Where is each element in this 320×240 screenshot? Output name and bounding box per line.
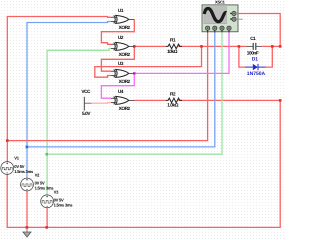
svg-text:U4: U4 [118,89,124,94]
capacitor C1 [247,36,262,55]
svg-text:100nF: 100nF [247,50,259,55]
scope bottom terminal 4 [227,26,231,30]
wire: V2 net blue vertical and U1 input B [27,22,111,179]
wire: V3 net green vertical and U2 input B [47,49,111,195]
XOR gate U1 [111,8,134,30]
junction C1 line / D1 left [238,45,241,48]
svg-text:R1: R1 [170,37,176,42]
svg-text:U1: U1 [118,8,124,13]
junction C1 line / U3B drop [200,45,203,48]
XOR gate U4 [111,89,134,111]
svg-text:D1: D1 [252,57,259,63]
svg-text:1N750A: 1N750A [247,71,266,77]
svg-text:XSC1: XSC1 [215,0,226,5]
wire: U3 output magenta to scope terminal 4 [134,32,229,74]
scope bottom terminal 3 [220,26,224,30]
wire: scope channel A from right terminal down to C1 line [236,14,280,47]
scope terminal A right [232,11,236,15]
svg-text:VCC: VCC [81,89,91,94]
scope bottom terminal 1 [206,26,210,30]
svg-text:U2: U2 [118,35,124,40]
wire: U1 output loop to U2 input A [101,19,134,44]
junction scope t3 / V3 vertical [45,153,48,156]
wire: drop from C1 line down to U3 input B [95,46,202,77]
wire: U3 output magenta loop to U4 input A [101,73,134,98]
source V3 [41,189,74,207]
source V2 [21,172,55,191]
svg-text:XOR2: XOR2 [119,79,131,84]
wire: VCC to U4 input B (light red) [91,102,111,105]
svg-text:1.5ms 3ms: 1.5ms 3ms [54,202,74,207]
svg-text:R2: R2 [170,92,176,97]
svg-text:XOR2: XOR2 [119,52,131,57]
junction scope t1 / V1 vertical [6,139,9,142]
svg-text:U3: U3 [118,61,124,66]
svg-text:1.0kΩ: 1.0kΩ [167,102,179,107]
resistor R1 [166,37,182,54]
source V1 [1,155,34,174]
wire: scope terminal 1 red down-left to V1 net [7,32,208,141]
wire: D1 loop right vertical [266,46,273,67]
diode D1 (zener 1N750A) [245,57,266,77]
svg-text:5.0V: 5.0V [82,111,91,116]
junction U2 output [133,45,136,48]
scope terminal B stub [236,18,243,20]
resistor R2 [166,92,182,108]
XOR gate U3 [111,61,134,84]
junction C1 line / right vertical [279,45,282,48]
junction U3 output magenta [133,72,136,75]
scope bottom terminal 2 [213,26,217,30]
wire: U2 output loop to U3 input A [101,46,134,71]
svg-text:1.5ms 3ms: 1.5ms 3ms [14,169,34,174]
svg-text:1.5ms 3ms: 1.5ms 3ms [35,186,55,191]
XOR gate U2 [111,35,134,57]
VCC power symbol [81,89,91,116]
wire: U2 output main horizontal to R1 and C1 [134,45,280,47]
scope bottom terminal pins [208,30,229,32]
wire: scope terminal 3 green down-left to V3 net [47,32,222,154]
svg-text:XOR2: XOR2 [119,25,131,30]
svg-text:10kΩ: 10kΩ [167,49,178,54]
scope terminal B right [232,17,236,21]
junction C1 line / D1 right [271,45,274,48]
wire: V3 bottom red segment [46,208,48,228]
junction scope t2 / V2 vertical [26,146,29,149]
wire: U4 output to R2 and right vertical [134,99,280,101]
ground [23,227,31,237]
junction R2 line / right vertical [279,99,282,102]
wire: D1 loop left vertical [239,46,245,67]
junction bus / V3 [45,226,48,229]
wire: scope terminal 2 blue down-left to V2 net [27,32,215,147]
svg-text:XOR2: XOR2 [119,106,131,111]
wire: V1 net red (left vertical, U1 input A, bottom bus) [7,17,280,228]
oscilloscope XSC1 [202,0,243,32]
wire: V2 bottom red segment [26,191,28,227]
svg-text:C1: C1 [250,36,256,41]
junction bus / V2 ground tee [26,226,29,229]
